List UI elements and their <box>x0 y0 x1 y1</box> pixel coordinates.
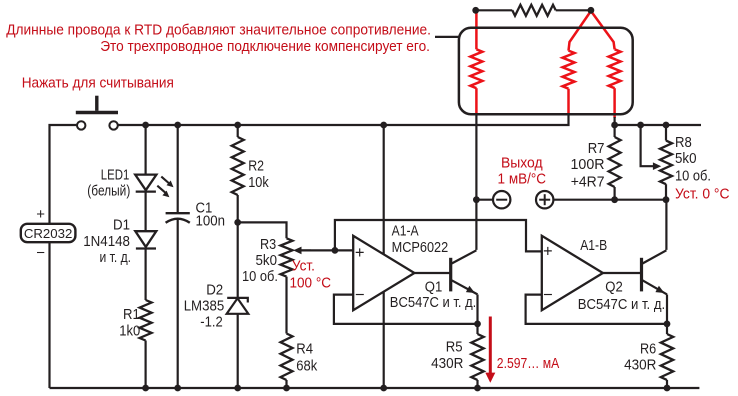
wire top rail left segment <box>50 125 77 224</box>
svg-text:R3: R3 <box>260 237 276 253</box>
node R3 top junction <box>234 219 241 226</box>
remote RTD box <box>459 28 633 114</box>
transistor Q1 <box>451 250 478 294</box>
svg-text:A1-B: A1-B <box>580 238 607 254</box>
label C1 <box>196 201 226 230</box>
node bottom rail R6 <box>664 385 671 392</box>
svg-text:Нажать для считывания: Нажать для считывания <box>22 74 174 91</box>
wire lead left to output node <box>475 114 477 200</box>
wire node A to A1-B noninverting input <box>335 220 542 251</box>
svg-text:10 об.: 10 об. <box>242 269 278 285</box>
node bottom rail R4 <box>283 385 290 392</box>
label R8 set <box>675 185 730 202</box>
label note line 2 <box>100 38 430 55</box>
label LED1 <box>87 167 130 199</box>
node R2 top <box>234 122 241 129</box>
wire R4 bottom to rail <box>285 380 287 388</box>
battery CR2032 <box>21 206 76 262</box>
node bottom rail LED branch <box>142 385 149 392</box>
node R7 bottom <box>611 196 618 203</box>
node bottom rail R5 <box>474 385 481 392</box>
svg-text:R2: R2 <box>248 159 264 175</box>
wire lead right to R7 node <box>613 117 615 125</box>
wire plus terminal to R7 bottom node <box>553 199 666 201</box>
wire bottom rail <box>50 387 700 389</box>
wire Q2 emitter to R6 <box>666 295 668 335</box>
label press to read <box>22 74 174 91</box>
wire R5 bottom to rail <box>476 380 478 388</box>
svg-text:1N4148: 1N4148 <box>83 234 130 250</box>
wire C1 branch <box>177 125 179 388</box>
wire R3 wiper to A1-A noninverting input <box>297 249 353 251</box>
svg-text:LED1: LED1 <box>101 167 130 183</box>
wire R6 bottom to rail <box>666 380 668 388</box>
LED LED1 <box>135 175 173 198</box>
wire RTD right lead <box>556 9 591 11</box>
label R3 set <box>290 257 332 291</box>
svg-text:Выход: Выход <box>501 155 543 172</box>
svg-text:D1: D1 <box>113 218 130 234</box>
resistor R7 <box>609 137 621 187</box>
svg-text:+: + <box>36 206 45 223</box>
node RTD right terminal <box>588 7 595 14</box>
label A1-B <box>580 238 607 254</box>
label R2 <box>248 159 269 192</box>
wire RTD left lead <box>476 9 513 11</box>
svg-text:68k: 68k <box>296 358 318 374</box>
svg-text:10k: 10k <box>248 175 269 191</box>
svg-text:R5: R5 <box>446 340 463 356</box>
svg-text:430R: 430R <box>431 356 463 372</box>
resistor R1 <box>140 300 152 341</box>
wire top rail right of switch <box>118 113 568 125</box>
resistor lead-wire middle (red) <box>563 51 575 89</box>
callout line to remote box <box>435 36 459 38</box>
resistor lead-wire right (red) <box>609 49 621 88</box>
label R1 <box>119 307 140 339</box>
node LED branch top <box>142 122 149 129</box>
svg-text:A1-A: A1-A <box>392 224 419 240</box>
wire A1-B inverting input to Q2 emitter node <box>526 295 667 324</box>
svg-text:и т. д.: и т. д. <box>100 250 132 266</box>
svg-text:1 мВ/°C: 1 мВ/°C <box>498 170 547 187</box>
svg-text:2.597… мА: 2.597… мА <box>497 355 560 372</box>
wire Q1 emitter to R5 <box>476 295 478 335</box>
wire battery negative to bottom rail <box>48 242 50 388</box>
wire lead right lower (red) <box>613 88 616 118</box>
svg-text:Q2: Q2 <box>605 279 623 295</box>
wire RTD long lead middle (red) <box>569 11 591 51</box>
resistor R2 <box>232 137 244 195</box>
wire A1-B output to Q2 base <box>603 272 641 274</box>
wire R8 leads <box>665 125 667 200</box>
wire A1-A output to Q1 base <box>414 272 449 274</box>
label D1 <box>83 218 131 266</box>
label R5 <box>431 340 463 372</box>
terminal output plus <box>536 191 553 208</box>
wire Q1 collector to node <box>475 200 477 250</box>
node A1-A supply top <box>380 122 387 129</box>
svg-text:Уст. 0 °C: Уст. 0 °C <box>675 185 730 202</box>
svg-text:100 °C: 100 °C <box>290 274 332 291</box>
node Q1 emitter <box>474 321 481 328</box>
zener diode D2 <box>227 298 249 314</box>
svg-text:−: − <box>36 245 45 262</box>
current arrow 2.597 mA <box>485 317 495 383</box>
svg-text:R8: R8 <box>675 135 692 151</box>
wire RTD long lead left (red) <box>475 10 478 49</box>
wire A1-A negative supply <box>383 292 385 388</box>
node output minus / Q1 collector <box>473 196 480 203</box>
op-amp U1B (A1-B) <box>542 236 603 310</box>
node R8 top <box>663 122 670 129</box>
resistor R5 <box>471 334 483 380</box>
wire node to minus terminal <box>476 199 493 201</box>
resistor lead-wire left (red) <box>470 49 482 88</box>
label R7 <box>571 141 605 191</box>
node R8 wiper feed <box>637 122 644 129</box>
potentiometer R8 <box>653 141 672 185</box>
svg-text:100R: 100R <box>571 157 605 173</box>
resistor R6 <box>661 334 673 380</box>
wire R8 wiper feed <box>641 125 655 166</box>
transistor Q2 <box>642 250 668 294</box>
label R6 <box>624 341 656 373</box>
node bottom rail C1 <box>174 385 181 392</box>
wire node to R3 top <box>238 222 287 238</box>
svg-text:Это трехпроводное подключение: Это трехпроводное подключение компенсиру… <box>100 38 430 55</box>
label note line 1 <box>6 22 431 39</box>
node C1 top <box>174 122 181 129</box>
label current value <box>497 355 560 372</box>
wire LED branch <box>145 125 147 388</box>
diode D1 <box>135 231 156 248</box>
svg-text:+: + <box>543 243 553 261</box>
wire Q2 collector to node <box>665 200 667 250</box>
label Q1 <box>390 279 477 311</box>
svg-text:D2: D2 <box>206 282 223 298</box>
svg-text:Уст.: Уст. <box>292 257 315 274</box>
wire A1-A inverting input to Q1 emitter node <box>334 295 478 324</box>
svg-text:LM385: LM385 <box>184 298 225 314</box>
label A1-A <box>392 224 449 256</box>
wire R2-D2 branch <box>237 125 239 388</box>
wire R3 bottom to R4 <box>285 277 287 334</box>
node RTD left terminal <box>472 7 479 14</box>
op-amp U1A (A1-A) <box>353 236 414 310</box>
svg-text:BC547C и т. д.: BC547C и т. д. <box>390 295 477 311</box>
svg-text:1k0: 1k0 <box>119 323 140 339</box>
svg-text:+4R7: +4R7 <box>571 174 605 190</box>
svg-text:5k0: 5k0 <box>675 151 697 167</box>
node R7 top / RTD sense <box>611 122 618 129</box>
svg-text:5k0: 5k0 <box>256 253 278 269</box>
push-button switch S1 <box>76 96 118 130</box>
capacitor C1 <box>166 213 190 223</box>
svg-text:−: − <box>543 286 553 304</box>
svg-text:CR2032: CR2032 <box>24 226 73 241</box>
resistor RTD sensor <box>512 5 555 16</box>
wire right top segment R7-R8 <box>615 124 701 126</box>
svg-text:R6: R6 <box>640 341 656 357</box>
label Q2 <box>578 279 666 313</box>
svg-text:Длинные провода к RTD добавляю: Длинные провода к RTD добавляют значител… <box>6 22 431 39</box>
svg-text:R7: R7 <box>588 141 605 157</box>
label output <box>498 155 547 188</box>
svg-text:+: + <box>355 244 365 262</box>
node R8 bottom / Q2 collector <box>663 196 670 203</box>
node noninverting reference <box>332 247 339 254</box>
terminal output minus <box>493 191 510 208</box>
svg-text:-1.2: -1.2 <box>200 315 223 331</box>
wire A1-A positive supply <box>383 125 385 255</box>
svg-text:430R: 430R <box>624 357 656 373</box>
node Q2 emitter <box>664 321 671 328</box>
wire RTD long lead right (red) <box>591 11 615 49</box>
node bottom rail A1-A supply <box>380 385 387 392</box>
wire lead left lower (red) <box>475 88 478 114</box>
resistor R4 <box>281 334 293 381</box>
label R8 <box>675 135 711 184</box>
svg-text:10 об.: 10 об. <box>675 168 711 184</box>
svg-text:100n: 100n <box>196 213 226 229</box>
label D2 <box>184 282 225 330</box>
wire lead middle lower (red) <box>567 89 570 115</box>
svg-text:(белый): (белый) <box>87 184 130 200</box>
svg-text:BC547C и т. д.: BC547C и т. д. <box>578 297 666 313</box>
node bottom rail D2 <box>234 385 241 392</box>
svg-text:R4: R4 <box>296 342 313 358</box>
svg-text:Q1: Q1 <box>425 279 443 295</box>
label R4 <box>296 342 318 375</box>
svg-text:R1: R1 <box>123 307 140 323</box>
label R3 <box>242 237 278 285</box>
svg-text:−: − <box>355 286 365 304</box>
potentiometer R3 <box>281 238 312 276</box>
svg-text:MCP6022: MCP6022 <box>392 240 449 256</box>
wire R7 leads <box>613 125 615 200</box>
